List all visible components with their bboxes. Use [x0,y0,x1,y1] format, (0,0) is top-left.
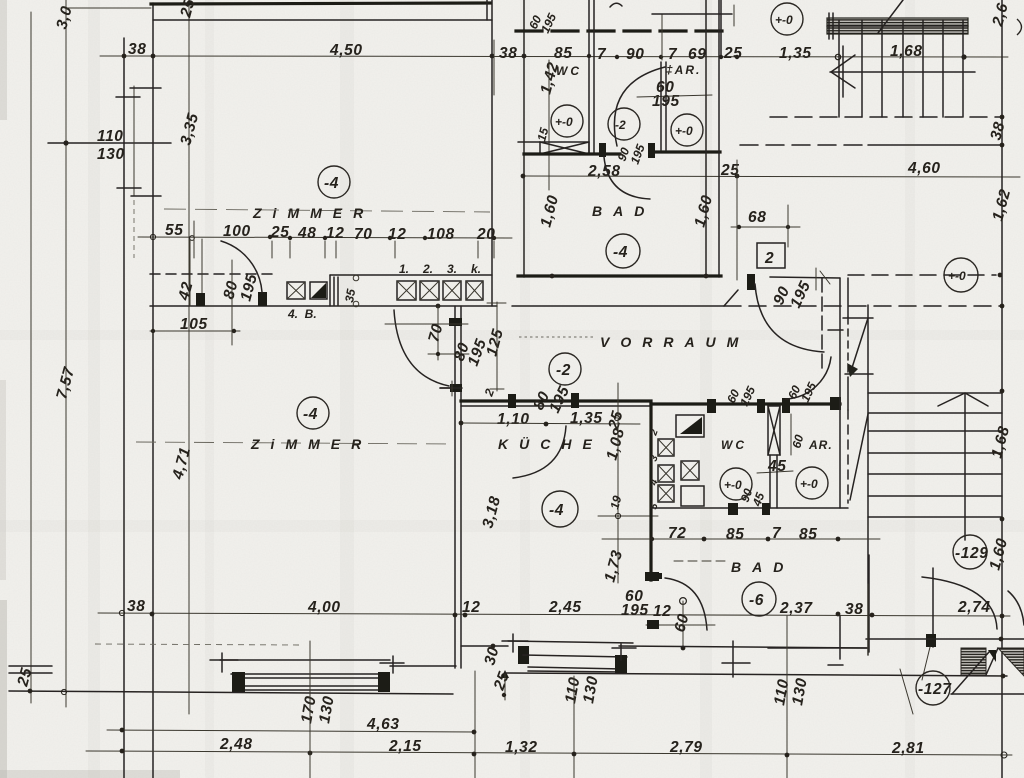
WC inner dim line [548,60,550,190]
line y639 [866,638,1024,640]
right wall ZIMMER1 [491,0,493,306]
svg-text:WC: WC [721,438,747,452]
fixture box X4 [658,485,674,502]
svg-text:12: 12 [462,599,480,616]
wall line lower WC [524,152,620,155]
window end post left [232,672,245,692]
ramp diagonals [986,648,998,675]
entry door swing arc [755,284,824,352]
window mid double lines [231,673,388,675]
kueche window post left [518,646,529,664]
window boxes 3-6 [397,281,416,300]
bottom wall outer line [9,691,453,694]
svg-text:12: 12 [388,226,406,243]
svg-text:4,00: 4,00 [307,599,341,616]
svg-text:108: 108 [427,226,455,243]
pier small circles [353,275,359,281]
line y676 tail [951,693,1024,695]
dashes over BAD2 [674,560,726,562]
leader to -127 [922,647,930,680]
svg-text:2,58: 2,58 [587,163,621,180]
svg-text:-129: -129 [955,545,988,562]
top wall tick left [440,387,461,389]
svg-text:7: 7 [772,525,782,542]
svg-text:+-0: +-0 [775,13,793,27]
node dot left at 110/130 line [63,140,68,145]
AR top link line [652,13,732,15]
door swing arc ZIMMER2 [394,310,449,386]
window tick a [130,87,161,89]
vertical x869 lower [868,555,870,652]
lower stair treads [868,392,1002,394]
dim row y237 line [138,237,512,238]
door post black right [258,292,267,306]
ext line x737 [736,160,738,280]
ZIMMER1 bottom wall upper face [330,274,492,276]
wall corner right of window [390,665,456,667]
top wall inner face [153,19,492,21]
circle +-0 AR2 [796,467,828,499]
svg-text:85: 85 [554,45,572,62]
bottom dim line main [86,751,1012,755]
dotted line VORRAUM [519,336,594,338]
shaft bottom tick [845,373,873,375]
door post bottom in wall [450,384,462,392]
black corner mark [988,650,996,662]
fixture box X2 [658,465,674,482]
svg-text:55: 55 [165,222,183,239]
stair risers top [838,20,840,117]
svg-text:2,48: 2,48 [219,736,253,753]
wc2 door posts [707,399,716,413]
svg-text:2,37: 2,37 [779,600,813,617]
shaft dashed edge [847,317,849,377]
svg-text:1,32: 1,32 [505,739,538,756]
svg-text:110: 110 [97,128,124,145]
svg-text:2,79: 2,79 [669,739,703,756]
WC right wall double [588,0,590,154]
svg-text:-4: -4 [303,406,318,423]
vertical x933 [932,568,934,647]
circle +-0 WC2 [720,468,752,500]
vertical x840 lower stub [839,616,841,659]
bottom wall door posts [728,503,738,515]
stair diagonal [878,0,903,33]
svg-text:-6: -6 [749,592,764,609]
window tick d [131,195,161,197]
corridor tick [828,329,843,331]
tick y625 [646,624,715,626]
corner join lines [440,387,462,389]
wall stub to AR [655,150,720,153]
left inner dimension line [65,0,67,707]
dim line y539 [602,538,880,540]
line y648 [768,647,867,649]
svg-text:+-0: +-0 [800,477,818,491]
svg-text:12: 12 [326,225,344,242]
window left wall dim line [133,86,135,196]
thick tick on y639 [926,634,936,647]
ext line x574 [573,676,575,778]
door posts kueche [508,394,516,408]
window tick c [117,187,141,189]
top dashed thick wall [516,29,726,32]
cupboard thick end [645,573,662,579]
svg-text:1,35: 1,35 [779,45,812,62]
svg-text:68: 68 [748,209,766,226]
entry door ticks [820,271,830,284]
dim ext line x232 [231,260,233,345]
dashed line y117 [770,116,1000,118]
left wall outer face [123,38,125,778]
svg-text:4,50: 4,50 [329,42,363,59]
svg-text:70: 70 [354,226,372,243]
scan shadow left edge [0,0,7,120]
line y145 [868,144,1002,146]
svg-text:85: 85 [726,526,744,543]
door post black b [648,143,655,158]
wall below window [769,455,771,508]
svg-text:25: 25 [270,224,289,241]
left wall inner face [152,3,154,778]
left ticks [9,665,52,667]
top dimension line y56 full width [100,56,1008,57]
svg-text:4,60: 4,60 [907,160,941,177]
X window in wall WC/BAD [540,142,589,154]
BAD right wall double [705,0,707,277]
door arc BAD top [614,67,665,146]
AR room left wall double [660,62,662,150]
faint dashed window ext [133,200,135,258]
window outer ticks left [221,653,223,672]
KUECHE top wall double thick [461,399,651,402]
svg-text:ZiMMER: ZiMMER [252,205,374,221]
ZIMMER2 bottom window: top line [220,659,390,661]
AR top tick vertical [733,5,735,26]
dashed corridor y306 to right [724,305,1000,307]
circle -2 VORRAUM [549,353,581,385]
svg-text:7: 7 [668,46,678,63]
door post top in wall [449,318,462,326]
window ticks right area [732,641,734,677]
right margin vertical [1001,0,1003,778]
door post black left [196,293,205,306]
svg-text:4. B.: 4. B. [287,307,317,321]
dim ticks below row [193,221,195,258]
window tick b [116,96,140,98]
svg-text:25: 25 [723,45,742,62]
entry arc big [922,577,997,629]
circle +-0 top stairs [771,3,803,35]
svg-text:2,74: 2,74 [957,599,991,616]
BAD top door arc [604,157,650,199]
second line under kueche window [619,646,867,648]
door post black [599,143,606,157]
circle -4 KUECHE [542,491,578,527]
door jamb lines [189,239,191,306]
kueche window mid lines [523,655,627,657]
circle +-0 AR [671,114,703,146]
hatched triangle right [998,648,1024,676]
kueche dim line [461,423,640,424]
small circle top dim [835,54,841,60]
ZIMMER1 baseline dashes [164,209,490,212]
VORRAUM top wall [512,305,724,307]
BAD2 door swing arc [665,578,707,630]
tick triangle [501,670,509,678]
corridor wall x822 [821,278,823,369]
WC block left wall [523,0,525,277]
X window WC2/AR2 [768,406,780,455]
svg-text:90: 90 [626,46,644,63]
top scribble circle fragment [610,3,622,7]
stairs top hatched band [827,18,968,34]
svg-text:AR.: AR. [808,438,833,452]
svg-text:1,10: 1,10 [497,411,530,428]
stair direction arrow [831,55,855,88]
svg-text:-4: -4 [549,502,564,519]
svg-text:‡AR.: ‡AR. [666,63,701,77]
svg-text:KÜCHE: KÜCHE [498,436,603,452]
bottom tick x310 [309,641,311,778]
svg-text:-4: -4 [613,244,628,261]
faint construction dashes [95,644,300,645]
svg-text:-2: -2 [556,362,571,379]
interior extension line [188,0,190,714]
kueche window post right [615,655,627,673]
svg-text:+-0: +-0 [675,124,693,138]
circle -2 [608,108,640,140]
room circle -4 ZIMMER1 [318,166,350,198]
circle -129 [953,535,987,569]
hatched ramp rect [961,648,986,675]
svg-text:-127: -127 [918,681,952,698]
svg-text:ZiMMER: ZiMMER [250,436,372,452]
dim tick 70 [385,323,468,325]
small circle dim [680,598,687,605]
vertical dim line x618 [617,383,619,583]
lower diagonal [850,414,868,500]
shaft diagonal [850,318,868,374]
svg-text:38: 38 [128,41,146,58]
room circle -4 ZIMMER2 [297,397,329,429]
dot on wall face [436,304,441,309]
svg-text:69: 69 [688,46,706,63]
BAD2 bottom wall long line [505,673,1007,676]
svg-text:85: 85 [799,526,817,543]
fixture triangle box [676,415,704,437]
svg-text:-2: -2 [615,118,626,132]
svg-text:12: 12 [653,603,671,620]
faint scanner streaks [88,0,100,778]
entry arc partial right [1008,591,1024,625]
AR door wall stub [661,14,663,60]
svg-text:1,35: 1,35 [570,410,603,427]
svg-text:1.: 1. [399,262,409,276]
partial circle right edge [1017,19,1022,35]
ZIMMER2 wall to VORRAUM double [454,306,456,668]
bottom dim line 4,63 [107,730,476,732]
dim line 4,00 [98,613,1010,616]
shaft top tick [843,317,873,319]
kueche cupboard wall [649,404,652,580]
svg-text:+-0: +-0 [948,269,966,283]
kueche door swing arc [513,426,566,478]
wall line over boxes [329,275,331,306]
dashed corridor line y275 [848,274,996,276]
fixture box X1 [658,439,674,456]
circle +-0 corridor [944,258,978,292]
ext tick x788 [787,205,789,247]
circle -127 [916,671,950,705]
wall segment corner to window [461,645,508,647]
window outer ticks right [392,656,394,673]
svg-text:195: 195 [621,602,649,619]
AR2 right wall double [839,278,841,508]
svg-text:3.: 3. [447,262,457,276]
leader diagonal [900,669,913,714]
top wall thick outer [151,3,490,4]
BAD2 door post [645,572,659,581]
svg-text:2,45: 2,45 [548,599,582,616]
svg-text:4,63: 4,63 [366,716,400,733]
ZIMMER1 bottom wall lower face [150,305,497,307]
dim line 105 [150,330,240,332]
svg-text:72: 72 [668,525,686,542]
svg-text:130: 130 [97,146,125,163]
window box 1 [287,282,305,299]
kueche window ticks right [620,644,622,660]
svg-text:2,81: 2,81 [891,740,925,757]
ZIMMER2 baseline dashes [136,442,452,444]
svg-text:VORRAUM: VORRAUM [600,334,749,350]
stair walk line [830,71,975,73]
stair centerline with arrow [964,394,966,540]
entry door post black [747,274,755,290]
circle -6 [742,582,776,616]
dim tick 80 [428,353,469,355]
svg-text:BAD: BAD [592,203,655,219]
dim line 68 [731,226,800,228]
svg-text:-4: -4 [324,175,339,192]
ext vertical x494 [493,40,495,95]
ZIMMER1 bottom wall dashed doorway line [150,273,273,275]
svg-text:k.: k. [471,262,481,276]
dim line y176 long [523,176,1020,177]
svg-text:7: 7 [597,46,607,63]
svg-text:BAD: BAD [731,559,794,575]
vertical x787 [786,616,788,778]
ext line x475 [474,671,476,778]
dim line x438 [437,306,439,360]
narrow wall pier lines [333,277,335,305]
circle -4 BAD [606,234,640,268]
window end post right [378,672,390,692]
KUECHE window top line [508,641,633,643]
tick line 110/130 [48,142,171,144]
AR door swing arc up [786,357,831,399]
box with 2 [757,243,785,268]
corridor top wall segment [770,277,840,278]
door swing arc ZIMMER1 [221,241,262,292]
vertical x868 bottom stub [867,584,869,655]
svg-text:2: 2 [764,250,774,267]
svg-text:38: 38 [499,45,517,62]
left outer dimension line [30,12,32,703]
svg-text:+-0: +-0 [555,115,573,129]
long vertical stair-side wall [867,305,869,655]
svg-text:1,68: 1,68 [890,43,923,60]
kueche window ticks left [512,634,514,652]
svg-text:2.: 2. [422,262,433,276]
circle +-0 WC [551,105,583,137]
dim line y516 [598,515,658,517]
svg-text:100: 100 [223,223,251,240]
svg-text:48: 48 [297,225,316,242]
jamb diagonal [724,290,738,306]
fixture box X3 [681,461,699,480]
ext line x497 [496,302,498,391]
dim dots on y56 [122,54,127,59]
top outer face line [66,7,151,9]
svg-text:+-0: +-0 [724,478,742,492]
BAD bottom wall [518,274,721,277]
svg-text:105: 105 [180,316,208,333]
WC2 top wall [651,402,840,405]
svg-text:2,15: 2,15 [388,738,422,755]
dots on y237 [150,234,155,239]
svg-text:38: 38 [845,601,863,618]
WC2/AR2 bottom wall [651,507,848,509]
svg-text:38: 38 [127,598,145,615]
fixture plain box [681,486,704,506]
window box 2 filled corner [310,282,327,299]
